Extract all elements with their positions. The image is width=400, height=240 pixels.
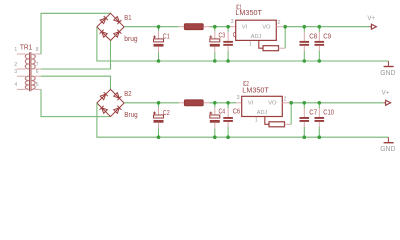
wire IC2 VO to V+ rail <box>291 102 383 104</box>
wire ADJ to resistor (R2) <box>265 116 269 124</box>
svg-text:VI: VI <box>242 25 248 31</box>
svg-text:VI: VI <box>248 101 254 107</box>
svg-text:3: 3 <box>14 69 17 75</box>
svg-text:1: 1 <box>255 117 258 123</box>
voltage regulator IC1 LM350T <box>230 20 285 40</box>
wire B2 minus to GND rail (bottom) <box>97 103 389 137</box>
junction output rail 2 x=304.3 <box>303 101 307 105</box>
svg-text:2: 2 <box>284 96 287 102</box>
svg-text:5: 5 <box>36 82 39 88</box>
wire choke to IC2 VI <box>210 102 237 104</box>
inductor (filter choke) bottom <box>179 100 210 106</box>
capacitor C2 (polarized) <box>153 103 164 137</box>
capacitor C1 (polarized) <box>153 27 164 61</box>
power symbol V+ (bottom) <box>384 100 391 105</box>
junction gnd rail 2 x=304.3 <box>303 135 307 139</box>
wire TR1 pin7 to B1 AC2 <box>41 41 111 69</box>
svg-text:GND: GND <box>380 70 395 77</box>
junction gnd rail 1 x=319.3 <box>318 59 322 63</box>
svg-text:VO: VO <box>268 101 277 107</box>
junction gnd rail 2 x=319.3 <box>318 135 322 139</box>
wire resistor to output rail <box>290 103 292 125</box>
svg-text:B1: B1 <box>124 15 131 22</box>
inductor (filter choke) top <box>179 24 210 30</box>
svg-text:Brug: Brug <box>124 112 137 119</box>
svg-text:C10: C10 <box>323 110 334 117</box>
svg-text:2: 2 <box>278 20 281 26</box>
resistor R2 (ADJ feedback) <box>269 122 285 127</box>
wire TR1 pin5 to B2 AC2 <box>41 89 111 116</box>
junction input rail 1 x=214.8 <box>213 25 217 29</box>
svg-text:TR1: TR1 <box>20 45 32 52</box>
junction gnd rail 1 x=304.3 <box>303 59 307 63</box>
svg-text:GND: GND <box>380 146 395 153</box>
svg-text:4: 4 <box>14 82 17 88</box>
bridge rectifier B1 <box>97 13 124 40</box>
svg-text:ADJ: ADJ <box>251 34 262 40</box>
capacitor C7 <box>300 103 310 137</box>
svg-text:C3: C3 <box>219 32 226 39</box>
ground symbol GND (top) <box>384 61 394 67</box>
svg-text:VO: VO <box>262 25 271 31</box>
power symbol V+ (top) <box>369 24 376 29</box>
wire TR1 pin8 to B1 AC1 <box>41 13 111 54</box>
ground symbol GND (bottom) <box>384 137 394 143</box>
junction gnd rail 1 x=214.8 <box>213 59 217 63</box>
svg-text:ADJ: ADJ <box>257 110 268 116</box>
svg-text:7: 7 <box>36 62 39 68</box>
junction output rail 1 x=304.3 <box>303 25 307 29</box>
capacitor C3 (polarized) <box>209 27 220 61</box>
wire IC1 VO to V+ rail <box>285 26 369 28</box>
svg-text:1: 1 <box>249 41 252 47</box>
wire B1 plus to choke <box>124 26 178 28</box>
svg-text:C8: C8 <box>309 33 317 40</box>
svg-text:C6: C6 <box>233 108 241 115</box>
junction input rail 2 x=158.5 <box>157 101 161 105</box>
svg-text:3: 3 <box>231 19 234 25</box>
svg-text:6: 6 <box>36 69 39 75</box>
capacitor C6 <box>223 103 233 137</box>
junction output rail 2 x=291.2 <box>289 101 293 105</box>
svg-text:B2: B2 <box>124 91 131 98</box>
svg-text:V+: V+ <box>382 89 390 96</box>
svg-text:3: 3 <box>237 95 240 101</box>
junction input rail 2 x=228.1 <box>226 101 230 105</box>
svg-text:8: 8 <box>36 47 39 53</box>
wire ADJ to resistor (R1) <box>259 40 263 48</box>
voltage regulator IC2 LM350T <box>236 96 291 116</box>
transformer TR1 <box>17 52 41 91</box>
svg-text:brug: brug <box>124 36 137 43</box>
svg-text:C1: C1 <box>163 34 170 41</box>
capacitor C5 <box>223 27 233 61</box>
wire B1 minus to GND rail (top) <box>97 27 389 61</box>
svg-text:LM350T: LM350T <box>235 10 262 17</box>
svg-text:2: 2 <box>14 62 17 68</box>
wire resistor to output rail <box>284 27 286 49</box>
junction output rail 1 x=285.2 <box>283 25 287 29</box>
junction gnd rail 2 x=214.8 <box>213 135 217 139</box>
junction input rail 2 x=214.8 <box>213 101 217 105</box>
capacitor C8 <box>300 27 310 61</box>
capacitor C10 <box>315 103 325 137</box>
svg-text:C7: C7 <box>309 110 317 117</box>
junction gnd rail 2 x=228.1 <box>226 135 230 139</box>
junction output rail 2 x=319.3 <box>318 101 322 105</box>
svg-text:C2: C2 <box>163 110 170 117</box>
junction input rail 1 x=228.1 <box>226 25 230 29</box>
bridge rectifier B2 <box>97 89 124 116</box>
wire choke to IC1 VI <box>210 26 231 28</box>
capacitor C9 <box>315 27 325 61</box>
junction gnd rail 2 x=158.5 <box>157 135 161 139</box>
junction output rail 1 x=319.3 <box>318 25 322 29</box>
svg-text:C4: C4 <box>219 109 226 116</box>
junction input rail 1 x=158.5 <box>157 25 161 29</box>
capacitor C4 (polarized) <box>209 103 220 137</box>
wire B2 plus to choke <box>124 102 178 104</box>
wire TR1 pin6 to B2 AC1 <box>41 76 111 89</box>
svg-text:V+: V+ <box>367 15 375 22</box>
junction gnd rail 1 x=228.1 <box>226 59 230 63</box>
resistor R1 (ADJ feedback) <box>263 46 279 51</box>
svg-text:LM350T: LM350T <box>242 87 269 94</box>
svg-text:C9: C9 <box>323 33 331 40</box>
junction gnd rail 1 x=158.5 <box>157 59 161 63</box>
svg-text:1: 1 <box>14 47 17 53</box>
